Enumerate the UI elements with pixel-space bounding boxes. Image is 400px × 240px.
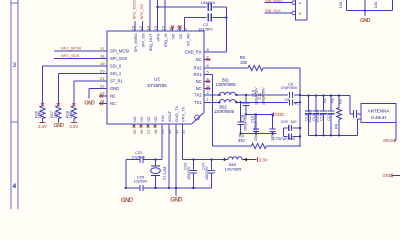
wire SPI_MOSI pin17 (54, 50, 107, 52)
capacitor C1 104/50V (158, 6, 207, 8)
svg-text:NFC_MISO: NFC_MISO (132, 0, 137, 20)
svg-text:100: 100 (373, 1, 378, 8)
svg-text:ST_R1: ST_R1 (110, 79, 123, 84)
antenna box (361, 104, 396, 123)
wire riser to antenna return (356, 119, 358, 136)
power 3.3V under R26 (40, 122, 46, 124)
node B63 input (223, 158, 226, 161)
power 3.3V right (256, 157, 258, 162)
net stub NFC_MISO pin16 (134, 21, 136, 31)
svg-text:20: 20 (100, 68, 105, 73)
capacitor C23 100/25V (193, 160, 195, 170)
capacitor C16 NC (322, 94, 324, 96)
svg-text:NC: NC (178, 33, 183, 39)
svg-text:GND: GND (121, 197, 134, 204)
svg-text:100: 100 (338, 1, 343, 8)
connector pin 5 (292, 11, 296, 15)
svg-text:100/25V: 100/25V (187, 166, 191, 180)
svg-text:47pF/50V: 47pF/50V (279, 137, 296, 141)
svg-text:SW_MISO: SW_MISO (265, 0, 283, 3)
wire GND pin22 (89, 88, 107, 90)
svg-text:19: 19 (100, 61, 105, 66)
svg-text:100/25V: 100/25V (205, 166, 209, 180)
ground under R27 (57, 119, 59, 122)
svg-text:NC: NC (338, 98, 342, 104)
capacitor C22 10p/50V (126, 159, 140, 161)
svg-text:120R/0805: 120R/0805 (215, 82, 236, 87)
svg-text:GND: GND (360, 18, 370, 24)
capacitor C20 NC (283, 127, 287, 129)
ferrite bead B62 120R/0805 (204, 101, 219, 103)
ground pullup rail (364, 11, 366, 16)
svg-text:ANTENNA: ANTENNA (368, 108, 391, 113)
capacitor C5 NC series (289, 99, 292, 105)
no-connect pin10 (179, 26, 181, 31)
svg-text:4: 4 (13, 183, 17, 190)
svg-text:330: 330 (240, 60, 248, 65)
svg-text:IRQ_OUT: IRQ_OUT (148, 33, 153, 51)
svg-text:3.3V: 3.3V (38, 124, 47, 129)
capacitor mid chain 1 (255, 113, 257, 115)
svg-text:100pF/50V: 100pF/50V (261, 87, 265, 105)
svg-text:GND_RX: GND_RX (184, 50, 201, 55)
wire XOUT pin30 down (168, 124, 170, 188)
svg-text:NC: NC (146, 116, 151, 122)
no-connect pin3 (204, 88, 211, 90)
no-connect pin4 (204, 81, 211, 83)
capacitor C13 101/25V (315, 94, 317, 96)
wire SPI_SCK pin18 (54, 58, 107, 60)
op-amp U2 ST25R95 chip body (107, 31, 204, 124)
svg-text:SPI_SS: SPI_SS (141, 33, 146, 47)
connector pin 4 (292, 1, 296, 5)
svg-text:VBUS: VBUS (383, 138, 394, 143)
wire antenna top rail (300, 95, 350, 97)
svg-text:VPS: VPS (156, 33, 161, 41)
svg-text:21: 21 (100, 76, 105, 81)
wire antenna block bottom rail (309, 134, 358, 136)
no-connect pin24 (99, 103, 107, 105)
svg-text:SW_CLK: SW_CLK (265, 8, 281, 13)
svg-text:C5: C5 (284, 98, 289, 102)
svg-text:RX1: RX1 (194, 72, 203, 77)
svg-text:SPI_MOSI: SPI_MOSI (110, 49, 129, 54)
svg-text:10p/50V: 10p/50V (132, 155, 146, 159)
capacitor C24 100/25V (211, 160, 213, 170)
svg-text:10K: 10K (38, 111, 42, 118)
svg-text:104/50V: 104/50V (201, 0, 216, 5)
svg-text:GND: GND (84, 101, 94, 107)
svg-text:27: 27 (146, 129, 151, 134)
wire ST_R0 pin9 up (184, 18, 186, 32)
wire B63 to 3.3V (242, 159, 257, 161)
wire IRQ_IN pin12 to top (164, 0, 166, 31)
node crystal top (154, 158, 156, 160)
wire VPS rail (182, 159, 228, 161)
no-connect pin11 (172, 26, 174, 31)
svg-text:10p/50V: 10p/50V (134, 180, 148, 184)
svg-text:NC: NC (196, 57, 202, 62)
no-connect pin26 (140, 124, 142, 128)
svg-text:120/0805: 120/0805 (225, 166, 242, 171)
wire pullup rail (347, 10, 393, 12)
svg-text:3.3V: 3.3V (69, 124, 78, 129)
wire antenna feed vertical (299, 68, 301, 147)
svg-text:25: 25 (132, 129, 137, 134)
svg-text:XOUT: XOUT (167, 110, 172, 122)
svg-text:GND: GND (382, 173, 391, 178)
svg-text:120R/0805: 120R/0805 (214, 109, 235, 114)
svg-text:SPI_SCK: SPI_SCK (110, 56, 128, 61)
capacitor mid chain 2 (271, 113, 273, 115)
crystal Y1 27.12M (155, 160, 157, 166)
svg-text:18: 18 (100, 53, 105, 58)
svg-text:0.48uH: 0.48uH (371, 115, 386, 120)
wire GND stub right edge (393, 174, 400, 176)
wire ST_R1 pin21 to R net (74, 80, 107, 82)
capacitor C2 101/50V (185, 17, 207, 19)
power 3.3V under R28 (71, 122, 77, 124)
svg-text:22: 22 (100, 83, 105, 88)
resistor R8 NC (338, 94, 340, 96)
wire C20 C21 left rail (282, 128, 284, 136)
wire antenna to VBUS (395, 122, 397, 140)
capacitor antenna series (349, 96, 351, 115)
wire SSI_0 pin19 to R net (43, 65, 108, 67)
capacitor C17 NC (330, 94, 332, 96)
wire TX2 node upper line (237, 94, 288, 96)
wire IRQ_OUT pin14 to top (149, 0, 151, 31)
svg-text:NFC_MOSI: NFC_MOSI (61, 46, 81, 51)
svg-text:28: 28 (153, 129, 158, 134)
no-connect pin28 (154, 124, 156, 128)
svg-text:C20: C20 (281, 119, 289, 124)
svg-text:NC: NC (196, 86, 202, 91)
svg-text:XIN: XIN (160, 115, 165, 122)
svg-text:C16: C16 (320, 114, 324, 121)
wire GND_RX pin8 (204, 51, 226, 53)
resistor 100 second (392, 0, 394, 11)
capacitor C18 chain from upper line (245, 94, 247, 96)
svg-text:IRQ_IN: IRQ_IN (163, 33, 168, 46)
capacitor C21 47pF/50V (283, 135, 287, 137)
resistor R26 (DNP) (40, 106, 45, 119)
wire GND_TX pin31 down (175, 124, 177, 196)
svg-text:ST_R0: ST_R0 (186, 33, 191, 46)
wire XIN pin29 down (161, 124, 163, 160)
svg-text:U2: U2 (154, 77, 160, 82)
wire chain bottom rail (241, 132, 277, 134)
svg-text:GND_TX: GND_TX (174, 105, 179, 122)
svg-text:NC: NC (330, 97, 334, 103)
svg-text:RX2: RX2 (194, 66, 203, 71)
svg-text:GND: GND (275, 112, 284, 117)
svg-text:SSI_0: SSI_0 (110, 64, 122, 69)
resistor R0 330 in RX2 line (204, 67, 248, 69)
wire left cap leg (125, 160, 127, 188)
ferrite bead B63 120/0805 (228, 157, 242, 160)
svg-text:330: 330 (238, 138, 246, 143)
svg-text:GND: GND (170, 197, 183, 204)
svg-text:SPI_MISO: SPI_MISO (133, 34, 138, 53)
wire SSI_1 pin20 to R net (58, 73, 107, 75)
net stub NFC_SS pin15 (142, 21, 144, 31)
svg-text:3: 3 (13, 62, 17, 69)
resistor 100 first (346, 0, 348, 11)
svg-text:NC: NC (171, 33, 176, 39)
connector J1 body (296, 0, 308, 20)
svg-text:ST25R95: ST25R95 (147, 83, 167, 88)
resistor R4 330 (213, 145, 252, 147)
svg-text:27.12M: 27.12M (162, 167, 167, 180)
svg-text:17: 17 (100, 46, 105, 51)
wire GND net line (245, 113, 247, 115)
capacitor C25 10p/50V in ground rail (140, 185, 143, 191)
svg-text:GND: GND (110, 86, 119, 91)
svg-text:NC: NC (110, 94, 116, 99)
svg-text:NC: NC (294, 101, 300, 105)
wire TX1 node lower line (237, 101, 288, 103)
wire RX1 pin5 down (204, 74, 213, 76)
ferrite bead B61 120R/0805 (204, 94, 219, 96)
svg-text:GND: GND (54, 123, 64, 129)
svg-text:C22: C22 (135, 150, 143, 155)
svg-text:NFC_SCK: NFC_SCK (61, 53, 80, 58)
svg-text:10K: 10K (69, 111, 73, 118)
no-connect pin27 (147, 124, 149, 128)
resistor R28 (DNP) (71, 106, 76, 119)
svg-text:R8: R8 (334, 124, 338, 129)
svg-text:SSI_1: SSI_1 (110, 71, 122, 76)
svg-text:TX2: TX2 (194, 93, 202, 98)
capacitor C12 101/25V (307, 94, 309, 96)
svg-text:NC: NC (110, 101, 116, 106)
svg-text:26: 26 (139, 129, 144, 134)
capacitor C0 47pF/50V series (289, 92, 292, 98)
sheet border left frame (10, 0, 12, 209)
wire to connector pin5 (265, 12, 292, 14)
svg-text:NC: NC (132, 116, 137, 122)
svg-text:NC: NC (153, 116, 158, 122)
svg-text:NC: NC (139, 116, 144, 122)
wire bottom ground rail (126, 187, 140, 189)
svg-text:101/50V: 101/50V (198, 26, 213, 31)
no-connect pin25 (133, 124, 135, 128)
svg-text:NC: NC (291, 119, 297, 124)
no-connect pin7 (204, 59, 211, 61)
svg-text:3.3V: 3.3V (259, 157, 268, 162)
svg-text:10K: 10K (54, 111, 58, 118)
wire VPS pin13 to top (157, 0, 159, 31)
resistor R27 (DNP) (56, 106, 61, 119)
svg-text:NC: NC (196, 79, 202, 84)
svg-text:47pF/50V: 47pF/50V (281, 86, 298, 90)
svg-text:C17: C17 (327, 114, 331, 121)
svg-text:TX1: TX1 (194, 100, 202, 105)
svg-text:VPS_TX: VPS_TX (180, 106, 185, 122)
svg-text:NC: NC (323, 97, 327, 103)
svg-text:NFC_SS: NFC_SS (139, 4, 144, 20)
wire caps to GND_RX (225, 7, 227, 52)
ground net label GND (273, 113, 275, 117)
wire to connector pin4 (265, 2, 292, 4)
wire mid pullup (364, 0, 366, 11)
node VPS branch (156, 6, 158, 8)
wire VPS_TX pin32 down (181, 124, 183, 160)
no-connect pin23 (99, 95, 107, 97)
capacitor C19 chain from lower line (240, 102, 242, 122)
